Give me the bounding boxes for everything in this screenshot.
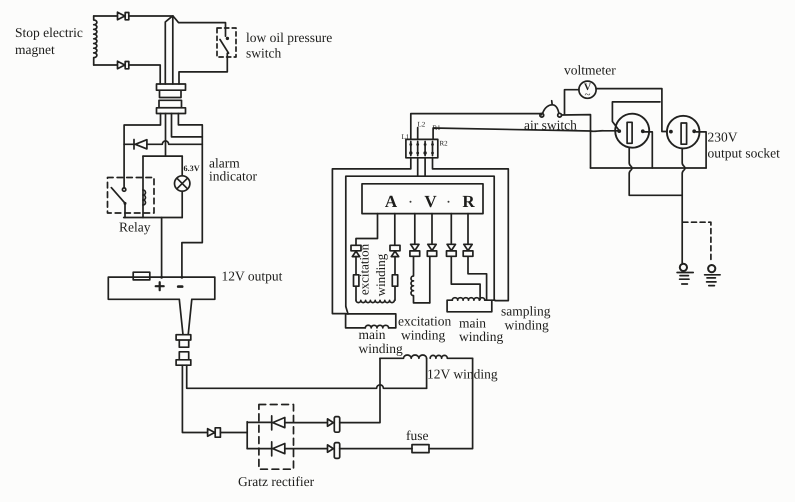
socket link wire [612,102,660,130]
resistor R2 [392,257,397,301]
wire J1 pin to 12V minus terminal [178,114,202,278]
label voltmeter [564,63,616,78]
label A V R [385,192,476,211]
branch 6 wire [468,256,487,300]
wire to 12V plus terminal [161,218,163,278]
label stop electric magnet [15,25,83,57]
svg-text:winding: winding [373,253,388,296]
ground G2 [705,265,721,286]
minus symbol [178,285,182,288]
wire G2 to output connector [285,448,328,450]
branch 2 wire [394,214,396,246]
svg-text:Stop electric: Stop electric [15,25,83,40]
wire magnet bottom to diode D2 [94,64,118,66]
output socket XS1 [615,114,649,148]
wire P2 to fuse [340,448,412,450]
inner enclosure [346,158,494,314]
wire socket1 right pin down [644,132,653,168]
outer enclosure left arm [332,158,410,314]
excitation winding coil [356,300,394,302]
wire voltmeter left [565,90,579,115]
svg-text:A: A [385,192,398,211]
wire D3 anode to right bus with hop [147,141,202,144]
voltmeter V symbol [584,82,592,101]
label L2 [418,121,426,129]
branch 5 wire [451,256,480,299]
label L1 [402,133,410,141]
output connector P1 [328,417,340,433]
label main winding left [359,327,404,356]
wire D3 cathode to relay line [124,143,134,145]
wire L1 to air switch [411,114,542,140]
output connector P2 [328,443,340,459]
svg-text:winding: winding [359,341,404,356]
svg-text:excitation: excitation [357,243,372,295]
main winding right box [447,300,492,312]
wire socket2 bottom to ground [682,149,685,263]
svg-text:switch: switch [246,46,281,61]
wire socket2 right pin down [696,132,706,168]
svg-text:V: V [424,192,437,211]
svg-text:low oil pressure: low oil pressure [246,30,332,45]
branch 4 wire [429,256,431,303]
label sampling winding [501,304,551,333]
diode D3 [134,140,147,150]
12V winding center tap [426,358,428,388]
label low oil pressure switch [246,30,332,61]
wire junction to socket 1 [591,130,619,133]
label Gratz rectifier [238,474,315,489]
stop electric magnet coil [94,16,97,65]
wire D4 to rectifier bus [220,432,247,434]
diode D2 [118,61,129,69]
ground G1 [677,264,693,284]
lamp 6.3V alarm indicator [175,156,190,217]
12V output box [108,272,215,299]
label alarm indicator [209,156,257,184]
relay coil [143,156,146,217]
wire switch to connector stack [179,53,227,84]
relay K1 dashed box [108,178,155,214]
alarm loop bottom wire [124,217,183,219]
svg-text:voltmeter: voltmeter [564,63,616,78]
label excitation winding vertical [357,243,389,296]
wire socket1 bottom [629,148,682,195]
alarm loop top wire [143,155,182,157]
connector J2 [176,335,191,365]
label 6.3V [184,164,200,173]
connector stack J1 [157,84,186,114]
svg-text:L2: L2 [418,121,426,129]
label R1 [433,124,442,132]
wire G1 to output connector [285,422,328,424]
wire P1 to 12V winding left end [340,358,380,422]
rectifier input bus [246,422,248,449]
wire J2 down to rectifier feed [182,365,207,432]
main winding left [346,314,396,328]
branch 5 diode [447,214,457,257]
dashed ground branch [683,222,711,262]
wire to low oil pressure switch [173,16,226,36]
resistor R1 [354,257,359,301]
outer enclosure right arm [433,158,509,301]
output socket XS2 [667,116,700,149]
Gratz rectifier dashed box [259,405,294,470]
voltmeter P [579,81,596,98]
wire J1 to alarm loop [165,114,167,157]
wire R1 to junction [433,128,590,139]
label main winding right [459,316,504,345]
svg-text:sampling: sampling [501,304,551,319]
branch 3 diode [410,214,420,257]
svg-text:excitation: excitation [398,314,451,329]
center tap return wire with hop [187,365,427,388]
svg-text:Relay: Relay [119,220,151,235]
wire D1 to plug column [129,15,173,17]
terminal block pins [409,142,434,156]
svg-text:12V winding: 12V winding [427,367,498,382]
branch 1 wire [356,214,378,246]
branch 3 vertical winding [411,256,430,303]
wire J1 pin to right bus upper [172,114,203,137]
wire D2 to connector stack [129,65,160,84]
wire magnet top to diode D1 [94,15,118,17]
svg-text:magnet: magnet [15,42,55,57]
label excitation winding horizontal [398,314,451,343]
label R2 [440,140,449,148]
diode D1 [118,12,129,20]
branch 6 diode [463,214,473,257]
plug cable pair [165,16,173,84]
AVR separator dots [410,201,450,203]
svg-text:L1: L1 [402,133,410,141]
plus symbol [156,282,164,290]
svg-text:winding: winding [401,328,446,343]
wire junction down to bottom bus [590,131,592,168]
AVR unit box [362,184,483,214]
svg-text:R1: R1 [433,124,442,132]
svg-text:air switch: air switch [524,118,577,133]
svg-text:Gratz rectifier: Gratz rectifier [238,474,315,489]
label Relay [119,220,151,235]
wire air switch to junction [562,115,591,131]
svg-text:R2: R2 [440,140,449,148]
wire L2 stub [417,128,419,140]
sampling winding coil [452,298,495,301]
thyristor T1 [351,245,361,256]
label 230V output socket [708,130,781,161]
label 12V winding [427,367,498,382]
svg-text:230V: 230V [708,130,738,145]
thyristor T2 [390,245,400,256]
rectifier diode G2 [247,442,285,456]
svg-text:12V output: 12V output [222,269,283,284]
fuse F1 [412,445,429,453]
rectifier diode G1 [247,416,285,430]
label air switch [524,118,577,133]
svg-text:winding: winding [505,318,550,333]
label fuse [406,428,429,443]
12V winding [380,355,473,358]
stem to connector J2 [179,299,192,334]
air switch [540,101,562,117]
relay contact and lever [111,188,126,218]
svg-text:output socket: output socket [708,146,781,161]
diode D4 [208,428,221,437]
low oil pressure switch S1 [217,28,236,57]
bottom bus wire [591,167,707,169]
label 12V output [222,269,283,284]
svg-text:~: ~ [585,89,591,101]
svg-text:main: main [359,327,386,342]
wire fuse to 12V winding right end [429,358,473,448]
terminal block TB1 [406,139,438,157]
svg-text:indicator: indicator [209,169,257,184]
wire J1 to relay contact [124,114,160,188]
svg-text:winding: winding [459,329,504,344]
wire voltmeter right to socket 2 [596,89,667,132]
svg-text:6.3V: 6.3V [184,164,200,173]
svg-text:fuse: fuse [406,428,429,443]
branch 4 diode [427,214,436,257]
svg-text:R: R [462,192,475,211]
